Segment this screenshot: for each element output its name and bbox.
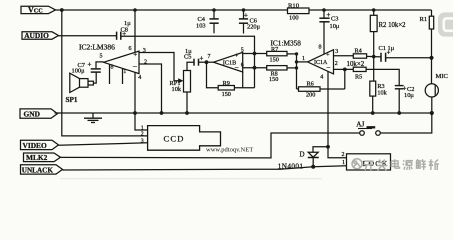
wire IC2 pin4 to ground bbox=[134, 72, 136, 113]
wire IC2 pin8 stub bbox=[109, 64, 111, 84]
wire UNLACK node to LOCK pin1 bbox=[313, 166, 346, 167]
wire R7 to IC1A output node bbox=[287, 53, 297, 55]
wire MLK2 to switch AJ bbox=[61, 133, 360, 158]
wire IC2 output to C7 bbox=[96, 62, 104, 69]
svg-text:−: − bbox=[133, 62, 138, 71]
svg-text:10k×2: 10k×2 bbox=[347, 61, 365, 68]
net tag GND bbox=[20, 109, 58, 119]
svg-text:R2 10k×2: R2 10k×2 bbox=[379, 22, 407, 29]
wire IC2 pin3 to RP1 wiper bbox=[139, 53, 179, 81]
wire IC1B +input to R7 bbox=[243, 53, 267, 55]
svg-text:4: 4 bbox=[138, 75, 141, 81]
svg-text:VIDEO: VIDEO bbox=[23, 141, 47, 150]
svg-text:VCC: VCC bbox=[28, 6, 43, 15]
junction node RP1 gnd bbox=[185, 111, 189, 115]
wire AUDIO line to C8 bbox=[59, 35, 117, 37]
svg-text:+: + bbox=[326, 51, 330, 58]
resistor R6 200 bbox=[299, 80, 321, 98]
svg-text:2: 2 bbox=[141, 132, 144, 138]
svg-text:8: 8 bbox=[319, 45, 322, 51]
svg-text:2: 2 bbox=[342, 152, 345, 158]
svg-text:R4: R4 bbox=[355, 47, 362, 54]
svg-text:+: + bbox=[88, 62, 92, 69]
svg-text:MLK2: MLK2 bbox=[26, 153, 48, 162]
watermark text bottom right bbox=[352, 159, 362, 169]
svg-text:3: 3 bbox=[335, 49, 338, 55]
svg-text:1: 1 bbox=[302, 56, 305, 62]
svg-text:150: 150 bbox=[270, 57, 279, 64]
wire C5 to IC1B output bbox=[199, 61, 214, 63]
svg-text:7: 7 bbox=[208, 54, 211, 60]
svg-text:220μ: 220μ bbox=[247, 24, 261, 31]
op-amp IC1A bbox=[302, 45, 338, 81]
svg-text:10μ: 10μ bbox=[404, 92, 414, 99]
resistor R4 bbox=[347, 47, 367, 67]
svg-text:R9: R9 bbox=[223, 80, 230, 87]
svg-text:www.pdtoqv.NET: www.pdtoqv.NET bbox=[206, 147, 253, 154]
wire IC1B -input to R8 bbox=[243, 67, 267, 69]
ground symbol bbox=[84, 113, 102, 123]
CCD module bbox=[148, 126, 221, 151]
capacitor C5 1u bbox=[184, 48, 204, 65]
wire CCD pin1 from ground bbox=[135, 113, 148, 130]
wire C1 to MIC node bbox=[386, 57, 432, 59]
wire IC1A output node vertical bbox=[296, 54, 298, 89]
svg-text:+: + bbox=[387, 50, 391, 57]
wire R1 to MIC node bbox=[431, 29, 433, 58]
svg-text:10k: 10k bbox=[377, 90, 387, 97]
watermark camera logo top right bbox=[438, 12, 453, 36]
svg-text:R10: R10 bbox=[288, 3, 300, 10]
junction node IC2 pin2 gnd bbox=[160, 111, 164, 115]
wire lock node to LOCK pin2 bbox=[328, 147, 347, 158]
wire node to MIC bbox=[431, 58, 433, 84]
svg-text:+: + bbox=[200, 55, 204, 62]
svg-text:+: + bbox=[244, 13, 248, 20]
net tag MLK2 bbox=[24, 153, 61, 162]
wire rail corner into R1 bbox=[431, 10, 433, 16]
wire switch to MIC ground node bbox=[380, 113, 432, 133]
capacitor C6 220u bbox=[239, 8, 261, 33]
junction node MIC / R1 / C1 bbox=[429, 56, 433, 60]
diode D 1N4001 bbox=[278, 151, 319, 171]
svg-text:R5: R5 bbox=[355, 74, 362, 81]
junction node Vcc / left rail bbox=[60, 8, 64, 12]
wire diode cathode to UNLACK line bbox=[312, 158, 314, 167]
svg-text:200: 200 bbox=[306, 91, 315, 98]
wire R3 to ground bbox=[372, 96, 374, 113]
microphone MIC bbox=[425, 73, 448, 97]
resistor R8 150 bbox=[267, 66, 287, 84]
wire RP1 top to C5 bbox=[187, 62, 194, 70]
svg-text:C3: C3 bbox=[331, 16, 338, 23]
wire node to IC1A output bbox=[297, 61, 308, 63]
junction node audio tap / +input bbox=[253, 52, 257, 56]
wire IC1B inverting corner down bbox=[242, 72, 244, 88]
wire R2 to R3 bbox=[373, 32, 375, 82]
wire audio tap line to IC1B input node bbox=[121, 36, 255, 87]
wire RP1 bottom to ground bbox=[186, 92, 188, 113]
wire ground rail bbox=[55, 112, 432, 114]
wire lock node to diode anode bbox=[313, 147, 328, 152]
svg-text:−: − bbox=[235, 63, 239, 72]
op-amp IC2 LM386 bbox=[79, 42, 147, 80]
speaker SP1 bbox=[66, 73, 94, 104]
svg-text:D: D bbox=[300, 151, 305, 159]
svg-text:−: − bbox=[326, 63, 330, 72]
wire C3 to IC1A pin8 bbox=[323, 22, 325, 55]
svg-text:5: 5 bbox=[241, 47, 244, 53]
resistor R1 bbox=[420, 16, 434, 29]
wire Vcc top rail right segment bbox=[309, 9, 432, 11]
svg-text:103: 103 bbox=[196, 22, 206, 29]
svg-text:6: 6 bbox=[129, 46, 132, 52]
svg-text:10μ: 10μ bbox=[330, 23, 340, 30]
wire IC1A +input to R4 bbox=[334, 55, 354, 57]
resistor R9 150 bbox=[218, 80, 234, 98]
svg-text:100μ: 100μ bbox=[72, 68, 86, 75]
svg-text:2: 2 bbox=[335, 61, 338, 67]
wire UNLACK line to diode node bbox=[63, 167, 314, 170]
svg-text:+: + bbox=[235, 53, 239, 60]
net tag Vcc bbox=[21, 6, 56, 15]
junction node bias divider bbox=[372, 55, 376, 59]
svg-text:UNLACK: UNLACK bbox=[22, 166, 54, 174]
pushbutton AJ bbox=[356, 120, 380, 135]
capacitor C4 103 bbox=[196, 8, 219, 33]
resistor R7 150 bbox=[267, 46, 287, 64]
junction node lock bbox=[326, 145, 330, 149]
wire R5 to C2 bbox=[366, 69, 399, 85]
op-amp IC1B bbox=[208, 47, 244, 72]
capacitor C7 100u bbox=[72, 62, 101, 75]
net tag VIDEO bbox=[21, 140, 59, 150]
capacitor C2 10u bbox=[395, 86, 415, 100]
svg-text:GND: GND bbox=[24, 110, 40, 119]
wire IC1A -input to R5 bbox=[334, 68, 354, 70]
svg-text:100: 100 bbox=[289, 15, 299, 22]
svg-text:1: 1 bbox=[141, 125, 144, 131]
wire IC1B feedback bottom bbox=[207, 62, 255, 87]
resistor R2 bbox=[370, 15, 406, 31]
svg-text:AUDIO: AUDIO bbox=[24, 31, 49, 40]
svg-text:R7: R7 bbox=[271, 46, 278, 53]
watermark artifact line bbox=[60, 178, 322, 180]
svg-text:R6: R6 bbox=[307, 80, 314, 87]
wire R6 feedback bottom bbox=[297, 88, 345, 90]
svg-text:AJ: AJ bbox=[356, 120, 364, 128]
junction node C2 gnd bbox=[397, 111, 401, 115]
svg-text:150: 150 bbox=[269, 76, 278, 83]
svg-text:C5: C5 bbox=[184, 53, 191, 60]
wire IC1A pin4 down to lock node bbox=[327, 72, 329, 147]
junction node R2 top bbox=[372, 8, 376, 12]
wire Vcc top rail left segment bbox=[54, 9, 288, 11]
wire C7 to speaker bbox=[93, 72, 96, 83]
wire R6 to IC1A -input bbox=[344, 69, 346, 89]
potentiometer RP1 10k bbox=[170, 71, 191, 93]
wire R8 to IC1A output node bbox=[287, 67, 297, 69]
IC LOCK module bbox=[347, 154, 391, 170]
wire VIDEO to CCD pin3 bbox=[59, 143, 148, 145]
capacitor C1 1u bbox=[379, 45, 395, 62]
junction node IC1B output bbox=[205, 60, 209, 64]
resistor R10 bbox=[288, 3, 310, 22]
wire C2 to ground bbox=[398, 89, 400, 113]
junction node MIC gnd / switch bbox=[430, 111, 434, 115]
wire R4 to C1 bbox=[367, 55, 381, 58]
svg-text:MIC: MIC bbox=[436, 73, 449, 80]
net tag UNLACK bbox=[21, 165, 63, 175]
svg-text:150: 150 bbox=[222, 91, 231, 98]
svg-text:1: 1 bbox=[123, 69, 126, 75]
net tag AUDIO bbox=[22, 31, 59, 40]
capacitor C8 1u bbox=[117, 20, 132, 40]
junction node IC2 pin4 / CCD pin1 bbox=[133, 111, 137, 115]
svg-text:IC2:LM386: IC2:LM386 bbox=[79, 42, 115, 51]
svg-text:4: 4 bbox=[320, 74, 323, 80]
wire Vcc to IC2 pin6 bbox=[134, 10, 136, 52]
svg-text:10k: 10k bbox=[172, 86, 182, 93]
svg-text:CCD: CCD bbox=[164, 134, 185, 144]
junction node Vcc / IC2 pin6 bbox=[133, 8, 137, 12]
svg-text:SP1: SP1 bbox=[66, 96, 78, 104]
wire IC2 pin2 to ground bbox=[139, 64, 162, 113]
resistor R3 10k bbox=[370, 81, 388, 97]
resistor R5 bbox=[353, 67, 366, 80]
svg-text:+: + bbox=[327, 12, 331, 19]
svg-text:1: 1 bbox=[342, 160, 345, 166]
wire left rail from Vcc down to CCD pin2 bbox=[62, 10, 148, 136]
svg-text:R1: R1 bbox=[420, 16, 428, 23]
wire IC2 pin1 stub bbox=[122, 68, 124, 84]
svg-text:8: 8 bbox=[111, 64, 114, 70]
junction node on -input bbox=[253, 66, 257, 70]
junction node R3 gnd bbox=[371, 111, 375, 115]
capacitor C3 10u bbox=[319, 8, 339, 30]
svg-text:5: 5 bbox=[100, 53, 103, 59]
wire R2 top bbox=[373, 10, 375, 15]
wire MIC to ground rail bbox=[431, 97, 433, 113]
